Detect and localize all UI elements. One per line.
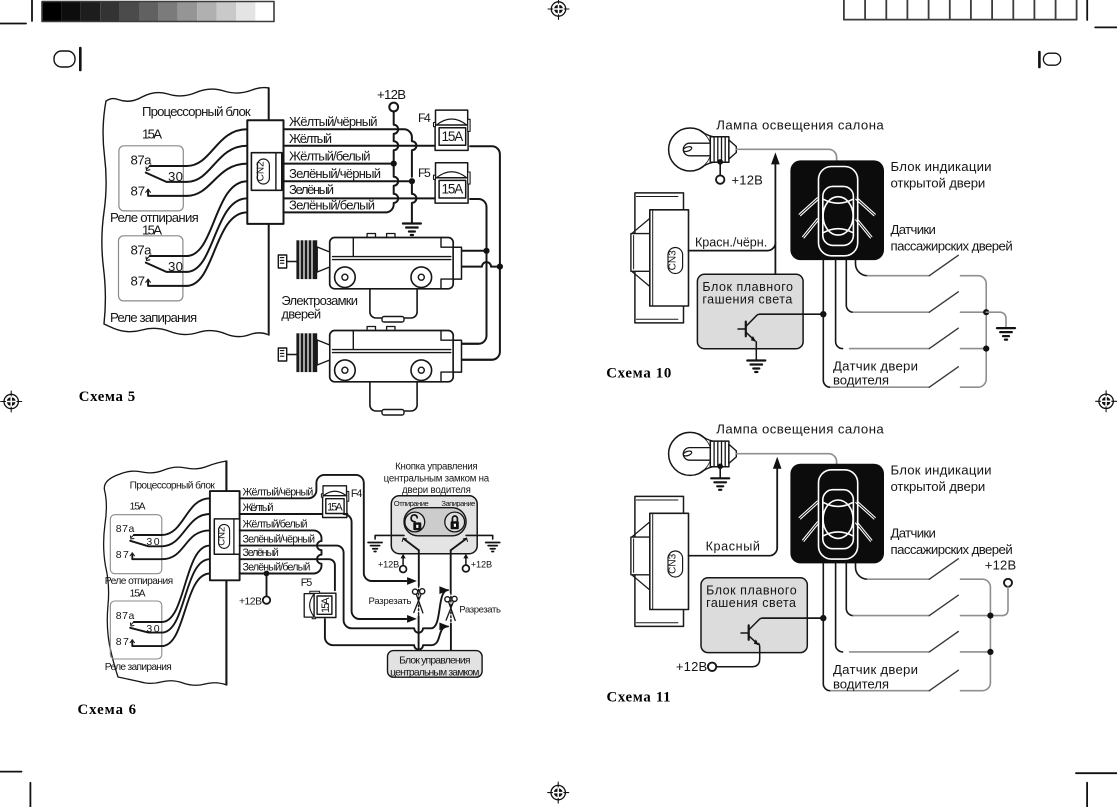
svg-text:87a: 87a	[131, 243, 153, 258]
svg-text:87a: 87a	[116, 523, 135, 535]
svg-text:87: 87	[131, 184, 146, 199]
node: +12V to Жёлтый/белый	[391, 161, 397, 167]
svg-text:+12В: +12В	[471, 560, 492, 570]
svg-text:Блок управления: Блок управления	[399, 656, 470, 667]
ground symbol at lock switch	[486, 543, 500, 552]
indicator wire 3 to middle passenger switch	[846, 563, 853, 615]
passenger door switch 3	[850, 328, 987, 348]
svg-text:15A: 15A	[130, 502, 146, 513]
arrow wire up to lamp circuit	[773, 457, 782, 469]
svg-text:Зелёный: Зелёный	[243, 547, 279, 559]
wire 2 Жёлтый to fuse F4	[240, 513, 322, 515]
svg-text:CN2: CN2	[216, 527, 227, 546]
driver's door lock button box	[391, 496, 477, 554]
svg-text:Схема 10: Схема 10	[606, 365, 671, 381]
wire 1 Жёлтый/чёрный to ground rail	[284, 129, 417, 176]
node: Зелёный/чёрный to ground rail	[409, 178, 415, 184]
driver's lock wire to control unit (cut)	[450, 550, 452, 592]
central lock control unit box	[388, 651, 483, 678]
svg-text:15A: 15A	[130, 589, 146, 600]
svg-text:Зелёный/белый: Зелёный/белый	[289, 197, 375, 212]
indicator wire 4 to front passenger switch	[856, 260, 868, 276]
svg-text:87: 87	[131, 274, 146, 289]
svg-text:Датчик двери: Датчик двери	[833, 662, 918, 677]
wire F5 output to actuators rail B	[462, 199, 487, 344]
relay K4 box (Реле запирания)	[110, 601, 162, 659]
svg-text:87: 87	[116, 636, 129, 648]
processor block outline	[104, 461, 227, 685]
svg-text:Кнопка управления: Кнопка управления	[395, 461, 478, 472]
grayscale calibration wedge	[42, 2, 274, 22]
color bar squares top-right	[844, 0, 1077, 20]
wire +12V terminal to bus node	[990, 587, 1008, 616]
svg-text:+12В: +12В	[378, 560, 399, 570]
unlock switch ground wire	[375, 535, 404, 539]
ground symbol under dimming unit	[747, 361, 765, 373]
svg-text:Процессорный блок: Процессорный блок	[142, 104, 251, 119]
+12V feed to lock switch	[463, 554, 468, 559]
svg-text:+12В: +12В	[676, 659, 707, 674]
svg-text:водителя: водителя	[833, 373, 889, 388]
ground symbol G1	[403, 224, 421, 236]
wire 3 Жёлтый/белый joins Зелёный/белый	[240, 530, 322, 573]
node bus/switch2	[983, 309, 989, 315]
svg-text:Разрезать: Разрезать	[369, 596, 412, 607]
unlock switch blade	[404, 539, 419, 551]
arrow into passenger cut wire below	[439, 623, 449, 631]
ground symbol right	[997, 328, 1015, 340]
lamp (dome light)	[669, 432, 737, 475]
svg-text:Разрезать: Разрезать	[459, 604, 501, 615]
wire K1.30 to CN2 pin2	[187, 146, 248, 182]
svg-text:Зелёный/чёрный: Зелёный/чёрный	[289, 166, 381, 181]
passenger door switch 2	[853, 292, 986, 312]
svg-text:пассажирских дверей: пассажирских дверей	[891, 239, 1013, 254]
svg-text:открытой двери: открытой двери	[891, 176, 986, 191]
closed padlock icon	[451, 516, 459, 529]
+12V terminal for dimming unit	[708, 663, 716, 671]
svg-text:Схема 5: Схема 5	[79, 389, 135, 405]
processor block right edge wire stubs	[225, 461, 227, 685]
indicator wire 1 down to node and driver's door switch	[823, 260, 830, 387]
wire K3.87 to CN2 pin3	[162, 530, 210, 559]
svg-text:гашения света: гашения света	[702, 293, 792, 307]
relay K1 box (Реле отпирания)	[119, 146, 183, 211]
wire 5 Зелёный to fuse F5	[284, 197, 436, 199]
crop tick top-right horizontal	[1095, 26, 1117, 28]
svg-text:Датчики: Датчики	[891, 526, 936, 541]
transistor Q1	[738, 314, 760, 359]
wire lamp to indication box	[736, 149, 836, 160]
arrow into driver's lock wire above cut	[407, 577, 417, 585]
node actuator1 A on rail B	[483, 248, 489, 254]
door open indication box (Блок индикации открытой двери)	[790, 160, 884, 260]
svg-text:Зелёный: Зелёный	[289, 182, 334, 197]
wire K2.87 to CN2 pin6	[187, 212, 248, 286]
node bus/switch3	[983, 346, 989, 352]
svg-text:Лампа освещения салона: Лампа освещения салона	[716, 118, 884, 133]
svg-text:Жёлтый: Жёлтый	[289, 131, 332, 146]
svg-text:Датчик двери: Датчик двери	[833, 359, 918, 374]
svg-text:87a: 87a	[116, 610, 135, 622]
svg-text:CN2: CN2	[256, 161, 267, 181]
registration mark top center	[548, 0, 569, 20]
processor block outline (Процессорный блок)	[102, 88, 269, 337]
transistor Q2	[716, 618, 762, 667]
common +12V bus	[989, 587, 991, 683]
svg-text:Схема 6: Схема 6	[78, 702, 137, 718]
scissors cut mark right	[445, 596, 457, 620]
plate mark pill right	[1043, 53, 1060, 65]
svg-text:пассажирских дверей: пассажирских дверей	[891, 542, 1013, 557]
svg-text:F4: F4	[418, 111, 431, 125]
wire K1.87a to CN2 pin1	[187, 129, 248, 166]
svg-text:F4: F4	[351, 488, 363, 500]
svg-text:Жёлтый/белый: Жёлтый/белый	[289, 149, 371, 164]
door open indication box (Блок индикации открытой двери)	[790, 464, 884, 564]
plate mark pill left	[54, 51, 75, 67]
plate mark bar left	[79, 48, 82, 70]
fuse F4 15A	[434, 110, 471, 150]
plate mark bar right	[1038, 52, 1041, 67]
wire actuator2 pin A	[462, 343, 479, 345]
node bus/switch3	[987, 649, 993, 655]
svg-text:Блок плавного: Блок плавного	[702, 280, 793, 294]
svg-text:F5: F5	[301, 577, 313, 589]
svg-text:Отпирание: Отпирание	[394, 499, 429, 508]
driver door switch	[831, 670, 991, 690]
door lock actuator M2	[278, 327, 461, 416]
crop tick top-right vertical	[1086, 0, 1088, 20]
crop tick bottom-right vertical	[1086, 783, 1088, 807]
ground symbol at unlock switch	[368, 543, 382, 552]
svg-text:Процессорный блок: Процессорный блок	[130, 480, 216, 492]
svg-text:+12В: +12В	[732, 172, 763, 187]
node bus/switch2	[987, 613, 993, 619]
indicator wire 4 to front passenger switch	[856, 563, 868, 579]
indicator wire 2 to rear passenger switch	[836, 260, 843, 349]
processor block right edge wire stubs	[267, 88, 269, 333]
svg-text:87a: 87a	[131, 153, 153, 168]
wire +12V down to node on Жёлтый/белый and bend into Зелёный/белый	[386, 111, 399, 212]
svg-text:Блок плавного: Блок плавного	[706, 583, 797, 597]
wire actuator1 pin B with hop over rail B	[462, 262, 500, 267]
svg-text:дверей: дверей	[281, 307, 321, 322]
svg-text:F5: F5	[418, 166, 431, 180]
passenger door switch 1	[868, 255, 987, 283]
wire K4.30 to CN2 pin5	[162, 559, 210, 632]
relay K2 box (Реле запирания)	[119, 236, 183, 301]
svg-text:Жёлтый: Жёлтый	[243, 502, 274, 514]
open padlock icon	[411, 515, 421, 530]
svg-text:Блок индикации: Блок индикации	[891, 159, 992, 174]
wire 6 Зелёный/белый	[284, 211, 386, 213]
ground rail continues to ground	[412, 181, 417, 222]
relay K3 box (Реле отпирания)	[110, 515, 162, 574]
connector CN2	[210, 491, 240, 580]
common ground bus	[985, 284, 987, 380]
lock switch blade	[451, 539, 467, 551]
svg-text:+12В: +12В	[239, 597, 262, 608]
+12V terminal under CN2	[266, 574, 268, 596]
connector CN3	[631, 193, 689, 323]
wire 4 Зелёный/чёрный	[284, 180, 412, 182]
wire 4 Зелёный/чёрный to right cut upper arrow	[240, 546, 448, 633]
wire K4.87 to CN2 pin6	[162, 574, 210, 647]
wire actuator1 pin A	[462, 250, 487, 252]
arrow wire up to lamp circuit	[771, 152, 780, 164]
wire 5 Зелёный to fuse F5	[240, 559, 335, 590]
light dimming unit box (Блок плавного гашения света)	[697, 274, 803, 348]
crop tick bottom-left horizontal	[0, 771, 22, 773]
node +12V tap on Зелёный/белый	[264, 571, 270, 577]
wire 2 Жёлтый to fuse F4	[284, 145, 436, 147]
svg-text:Реле запирания: Реле запирания	[110, 310, 197, 325]
connector CN3	[631, 496, 689, 626]
unlock button circle	[405, 512, 425, 532]
wire actuator2 pin B	[462, 359, 492, 361]
crop tick bottom-left vertical	[29, 783, 31, 807]
svg-text:+12В: +12В	[377, 87, 406, 102]
door lock actuator M1	[278, 234, 461, 323]
crop tick bottom-right horizontal	[1076, 772, 1117, 774]
wire lamp to indication box	[736, 454, 836, 464]
lamp +12V terminal	[719, 162, 721, 175]
arrow into driver's lock wire below cut	[407, 615, 417, 623]
passenger door switch 1	[868, 559, 991, 587]
passenger door switch 2	[853, 595, 990, 615]
node actuator1 B on rail A	[497, 264, 503, 270]
fuse F5 15A rotated	[304, 591, 336, 618]
crop tick top-left horizontal	[0, 23, 26, 25]
driver's unlock wire to control unit (cut)	[418, 550, 420, 585]
passenger door switch 3	[850, 632, 991, 652]
wire 3 Жёлтый/белый	[284, 163, 394, 165]
wire F5 output to right cut lower arrow	[325, 619, 448, 650]
wire K3.87a to CN2 pin1	[162, 498, 210, 535]
+12V feed to unlock switch	[401, 554, 406, 559]
svg-text:Зелёный/чёрный: Зелёный/чёрный	[243, 534, 316, 546]
svg-text:Реле запирания: Реле запирания	[105, 662, 172, 673]
svg-text:Лампа освещения салона: Лампа освещения салона	[716, 422, 884, 437]
lamp ground	[719, 466, 721, 477]
lock button circle	[445, 512, 465, 532]
arrow into passenger cut wire above	[439, 586, 449, 594]
node driver's door / dimmer / indicator	[820, 615, 826, 621]
svg-text:Схема 11: Схема 11	[607, 690, 671, 706]
registration mark left center	[1, 391, 22, 412]
registration mark right center	[1096, 391, 1117, 412]
wire K1.87 to CN2 pin3	[187, 164, 248, 196]
wire K2.30 to CN2 pin5	[187, 198, 248, 272]
svg-text:+12В: +12В	[985, 558, 1016, 573]
lamp (dome light)	[669, 128, 737, 171]
scissors cut mark left	[413, 589, 425, 613]
svg-text:Датчики: Датчики	[891, 222, 936, 237]
wire K4.87a to CN2 pin4	[162, 546, 210, 622]
svg-text:Запирание: Запирание	[441, 499, 475, 508]
wire 1 Жёлтый/чёрный over F4 down to cut arrow	[240, 475, 407, 581]
svg-text:Красный: Красный	[706, 540, 760, 554]
driver door switch	[831, 367, 986, 387]
wire K2.87a to CN2 pin4	[187, 181, 248, 256]
svg-text:Красн./чёрн.: Красн./чёрн.	[695, 235, 767, 249]
svg-text:центральным замком: центральным замком	[390, 668, 479, 679]
indicator wire 2 to rear passenger switch	[836, 563, 843, 652]
connector CN2	[247, 120, 283, 224]
fuse F5 15A	[434, 163, 471, 203]
svg-text:центральным замком на: центральным замком на	[384, 474, 490, 485]
svg-text:Зелёный/белый: Зелёный/белый	[243, 562, 311, 574]
svg-text:открытой двери: открытой двери	[891, 479, 986, 494]
wire F4 output to actuators rail A	[462, 146, 500, 359]
svg-text:Жёлтый/чёрный: Жёлтый/чёрный	[289, 114, 378, 129]
svg-text:87: 87	[116, 549, 129, 561]
svg-text:Реле отпирания: Реле отпирания	[105, 576, 173, 587]
wire transistor collector to driver's door node	[763, 617, 824, 619]
registration mark bottom center	[548, 782, 569, 803]
fuse F4 15A	[321, 486, 348, 518]
wire F4 output down to cut arrow	[344, 514, 407, 619]
svg-text:15A: 15A	[142, 127, 162, 142]
node driver's door / dimmer / indicator	[820, 311, 826, 317]
wire bus to ground	[986, 312, 1006, 327]
svg-text:гашения света: гашения света	[706, 596, 796, 610]
+12V terminal at switches	[1004, 579, 1012, 587]
wire transistor collector to driver's door node	[760, 313, 824, 315]
indicator wire 1 down to node and driver's door switch	[823, 563, 830, 690]
indicator wire 3 to middle passenger switch	[846, 260, 853, 312]
svg-text:Блок индикации: Блок индикации	[891, 463, 992, 478]
crop tick top-left vertical	[31, 0, 33, 21]
svg-text:двери водителя: двери водителя	[402, 485, 471, 496]
svg-text:Жёлтый/белый: Жёлтый/белый	[243, 518, 308, 530]
wire K3.30 to CN2 pin2	[162, 514, 210, 546]
lock switch ground wire	[466, 535, 493, 539]
svg-text:Жёлтый/чёрный: Жёлтый/чёрный	[243, 486, 314, 498]
light dimming unit box (Блок плавного гашения света)	[701, 578, 807, 653]
svg-text:водителя: водителя	[833, 676, 889, 691]
